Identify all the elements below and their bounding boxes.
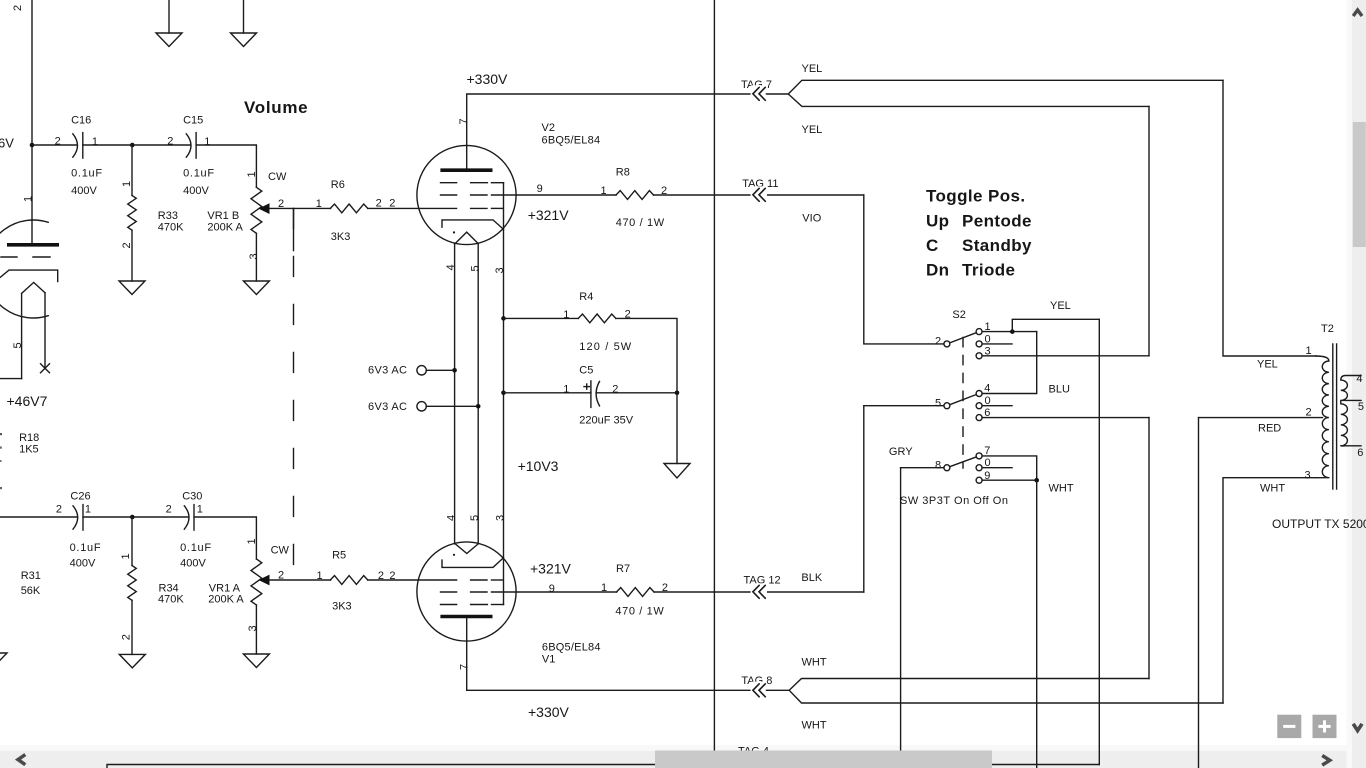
resistor R18 value labels [19, 432, 39, 456]
ground (R33) [119, 281, 145, 295]
dashed mechanical link S2 [962, 338, 964, 469]
svg-text:1: 1 [601, 582, 607, 594]
transformer T2 primary winding [1316, 356, 1329, 478]
svg-text:1: 1 [120, 553, 132, 559]
wire pole 5 feed [864, 405, 944, 407]
svg-text:9: 9 [549, 583, 555, 595]
switch S2 designator [952, 309, 965, 321]
wire bottom-left feed to C26 [0, 516, 77, 518]
wire V2 pin 9 to R8 [492, 194, 617, 196]
svg-text:Standby: Standby [962, 236, 1032, 255]
svg-text:YEL: YEL [802, 124, 823, 136]
junction dot C16/C15/R33 [130, 143, 135, 148]
svg-text:R18: R18 [19, 432, 39, 444]
switch S2 pole 8 [935, 459, 950, 471]
resistor R34 [120, 517, 184, 654]
wire V1 plate to +330V rail (bottom) [467, 618, 753, 690]
wire V2 pin 5 / V1 pin 5 heater rail [477, 244, 479, 544]
svg-text:CW: CW [271, 544, 290, 556]
svg-text:V1: V1 [542, 654, 555, 666]
wire label WHT (upper) [802, 657, 827, 669]
switch S2 contact 4 [976, 383, 990, 397]
switch S2 contact 9 [976, 470, 990, 483]
svg-text:2: 2 [1306, 407, 1312, 419]
wire R6 to V2 grid [368, 207, 457, 209]
resistor R31 labels (off-screen component) [21, 570, 41, 597]
vertical riser TAG12 to pole 5 [863, 406, 865, 592]
svg-text:6: 6 [1357, 447, 1363, 459]
tag TAG 11 label [742, 178, 778, 190]
svg-text:4: 4 [1356, 373, 1362, 385]
junction dot pin5 rail [476, 404, 481, 409]
net label +330V (bottom) [528, 704, 570, 720]
pin label 1 (T2) [1306, 345, 1312, 357]
wire contact 7 to WHT junction [982, 456, 1037, 480]
pentode V2 envelope [417, 145, 516, 244]
wire R8 to TAG 11 [654, 194, 864, 196]
capacitor C16 [55, 115, 103, 197]
wire VR1A wiper out [270, 579, 331, 581]
capacitor C26 [56, 491, 101, 570]
svg-text:1: 1 [601, 185, 607, 197]
fork split TAG 8 (WHT pair) [789, 679, 1223, 704]
wire junction to C15 [132, 144, 190, 146]
switch S2 lever pole 2 to contact 1 [950, 333, 977, 343]
svg-text:6BQ5/EL84: 6BQ5/EL84 [542, 642, 601, 654]
svg-text:C30: C30 [182, 491, 202, 503]
capacitor C5 [504, 365, 678, 427]
svg-text:2: 2 [167, 136, 173, 148]
tag TAG 7 label [741, 79, 772, 91]
switch S2 type label [900, 495, 1008, 507]
ground (top, left) [156, 0, 182, 47]
svg-text:R7: R7 [616, 563, 630, 575]
pentode V2 grid g2 dashes [441, 194, 488, 196]
pin label 5 (rotated) [12, 342, 24, 348]
wire heater pin 5 horizontal exit [0, 378, 22, 380]
svg-text:7: 7 [459, 664, 471, 670]
svg-text:Volume: Volume [244, 98, 308, 117]
wire label WHT (at S2) [1049, 482, 1074, 494]
wire label VIO [802, 213, 821, 225]
svg-text:GRY: GRY [889, 446, 913, 458]
pentode V1 grid g3 dashes [441, 604, 504, 606]
terminal 6V3 AC (pin 4) [368, 365, 426, 377]
tube designator V1 [542, 642, 601, 666]
svg-text:1: 1 [92, 136, 98, 148]
scrollbar arrow left [18, 755, 25, 765]
resistor R4 [504, 291, 678, 393]
svg-text:C16: C16 [71, 115, 91, 127]
svg-text:6V3 AC: 6V3 AC [368, 401, 407, 413]
switch S2 contact 0c (off) [976, 457, 991, 471]
svg-text:Dn: Dn [926, 261, 949, 280]
svg-text:T2: T2 [1321, 323, 1334, 335]
tag TAG 4 label (partially hidden) [738, 746, 769, 758]
svg-text:2: 2 [612, 383, 618, 395]
scrollbar arrow down [1353, 724, 1362, 731]
svg-text:3K3: 3K3 [331, 231, 351, 243]
pentode V1 envelope [417, 542, 516, 641]
svg-text:4: 4 [445, 515, 457, 521]
pentode V2 plate bar [440, 168, 492, 172]
switch S2 contact 0b (off) [976, 395, 991, 409]
horizontal scrollbar track [0, 751, 1366, 768]
switch S2 contact 3 [976, 345, 991, 359]
svg-text:CW: CW [268, 171, 287, 183]
vertical YEL wire TAG7 fork to T2 pin 1 [1223, 80, 1316, 356]
pin label 5 (rotated, V2) [470, 265, 482, 271]
ground (top, right) [231, 0, 257, 47]
transformer T2 part label [1272, 517, 1366, 531]
wire label WHT (T2) [1260, 483, 1285, 495]
pin label 4 (rotated, V1) [445, 515, 457, 521]
svg-text:+46V7: +46V7 [7, 393, 48, 409]
ground (VR1A) [243, 654, 269, 668]
triode V3 heater [22, 282, 45, 293]
svg-text:2: 2 [121, 634, 133, 640]
svg-text:R6: R6 [331, 179, 345, 191]
svg-text:5: 5 [12, 342, 24, 348]
wire C5 to ground [676, 393, 678, 464]
switch S2 pole 5 [935, 397, 950, 409]
wire contact 3 to YEL riser [982, 355, 1149, 357]
resistor R6 [316, 179, 396, 243]
svg-text:R31: R31 [21, 570, 41, 582]
svg-text:YEL: YEL [802, 63, 823, 75]
svg-text:5: 5 [935, 397, 941, 409]
svg-text:2: 2 [12, 5, 24, 11]
svg-text:WHT: WHT [1049, 482, 1074, 494]
svg-text:6V3 AC: 6V3 AC [368, 365, 407, 377]
svg-text:YEL: YEL [1257, 359, 1278, 371]
svg-text:2: 2 [56, 503, 62, 515]
wire T2 pin 2 (RED) [1199, 417, 1323, 419]
transformer T2 secondary winding [1341, 376, 1361, 447]
wire VR1B wiper out [270, 207, 331, 209]
pin label 6 (T2 secondary) [1357, 447, 1363, 459]
pentode V1 grid g1 dashes [471, 579, 503, 581]
wire heater second leg [44, 293, 46, 368]
zoom in button [1313, 715, 1337, 738]
switch S2 pole 2 [935, 336, 950, 348]
wire label WHT (lower) [802, 719, 827, 731]
pin label 7 (rotated, V1 plate) [459, 664, 471, 670]
net label +10V3 [518, 458, 559, 474]
wire contact 9 to WHT junction [982, 479, 1037, 481]
svg-text:120 / 5W: 120 / 5W [579, 341, 632, 353]
svg-text:1: 1 [246, 538, 258, 544]
vertical scrollbar thumb [1353, 122, 1366, 247]
vertical GRY wire to bottom [900, 468, 902, 768]
svg-text:4: 4 [445, 264, 457, 270]
svg-text:+330V: +330V [528, 704, 570, 720]
node A junction dot (C16 input node) [30, 143, 35, 148]
svg-text:400V: 400V [71, 185, 97, 197]
wire V1 pin 9 to R7 [492, 591, 617, 593]
resistor R7 [601, 563, 668, 618]
svg-text:200K A: 200K A [207, 222, 243, 234]
junction dot cathode/C5 [501, 391, 506, 396]
pentode V1 grid g2 dashes [441, 591, 488, 593]
svg-text:3: 3 [1305, 470, 1311, 482]
terminal 6V3 AC (pin 5) [368, 401, 426, 413]
svg-text:1: 1 [85, 503, 91, 515]
svg-text:R5: R5 [332, 549, 346, 561]
scrollbar arrow right [1322, 756, 1330, 766]
svg-text:0.1uF: 0.1uF [183, 167, 214, 179]
wire plate lead of left triode [31, 145, 33, 243]
potentiometer VR1 A [208, 538, 289, 654]
svg-text:470 / 1W: 470 / 1W [616, 217, 665, 229]
horizontal scrollbar gap band [0, 745, 1366, 751]
svg-text:1: 1 [316, 198, 322, 210]
svg-text:1: 1 [197, 503, 203, 515]
wire TAG 8 to fork [767, 689, 790, 691]
svg-text:8: 8 [935, 459, 941, 471]
svg-text:VR1 B: VR1 B [207, 210, 239, 222]
svg-text:0.1uF: 0.1uF [180, 542, 211, 554]
vertical scrollbar track [1352, 0, 1366, 768]
switch S2 lever pole 5 to contact 4 [950, 395, 977, 405]
leftover cut glyph specks at viewport edge [0, 433, 2, 489]
svg-text:400V: 400V [180, 558, 206, 570]
svg-text:7: 7 [984, 445, 990, 457]
no-connect X marker [41, 364, 50, 373]
tag TAG 8 label [741, 675, 772, 687]
pin label 1 (rotated, left triode plate) [23, 196, 35, 202]
zoom out button [1277, 715, 1301, 738]
svg-text:3K3: 3K3 [332, 600, 352, 612]
transformer T2 core [1333, 344, 1337, 489]
svg-text:BLU: BLU [1049, 384, 1070, 396]
wire label YEL (T2) [1257, 359, 1278, 371]
resistor R5 [317, 549, 396, 612]
wire junction to C30 [132, 516, 188, 518]
resistor R8 [601, 167, 668, 230]
svg-text:+10V3: +10V3 [518, 458, 559, 474]
pin label 3 (rotated, V1) [494, 515, 506, 521]
svg-text:3: 3 [247, 625, 259, 631]
wire label BLU [1049, 384, 1070, 396]
junction dot pin4 rail [452, 368, 457, 373]
artifact dot V2 [453, 231, 455, 233]
svg-text:3: 3 [248, 253, 260, 259]
wire R7 to TAG 12 [654, 591, 864, 593]
net label +46V7 [7, 393, 48, 409]
svg-text:470K: 470K [158, 594, 184, 606]
svg-text:1: 1 [563, 384, 569, 396]
svg-text:470 / 1W: 470 / 1W [615, 606, 664, 618]
svg-text:1: 1 [121, 181, 133, 187]
svg-text:400V: 400V [183, 185, 209, 197]
wire top-left feed to node [31, 0, 33, 145]
svg-text:6V: 6V [0, 136, 14, 151]
net label +321V (top) [528, 207, 570, 223]
svg-text:5: 5 [470, 265, 482, 271]
svg-text:1: 1 [23, 196, 35, 202]
pin label 9 (V1 screen) [549, 583, 555, 595]
wire C26 to junction [83, 516, 132, 518]
pentode V1 plate bar [440, 615, 492, 619]
svg-text:Toggle Pos.: Toggle Pos. [926, 187, 1025, 206]
pentode V2 cathode [442, 220, 504, 229]
switch S2 contact 0a (off) [976, 333, 991, 347]
svg-text:SW 3P3T On Off On: SW 3P3T On Off On [900, 495, 1008, 507]
svg-text:220uF 35V: 220uF 35V [579, 415, 633, 427]
wire YEL loop from contact 1 [1012, 319, 1099, 331]
wire label YEL (at S2) [1050, 300, 1071, 312]
svg-text:YEL: YEL [1050, 300, 1071, 312]
pin label 3 (rotated, V2) [494, 267, 506, 273]
wire V2 pin 3 cathode rail [503, 183, 505, 605]
dashed gang link VR1B-VR1A [293, 208, 295, 580]
switch S2 contact 1 [976, 321, 991, 335]
wire TAG 7 to fork [767, 93, 789, 95]
pin label 7 (rotated, V2 plate) [458, 118, 470, 124]
wire label BLK [801, 572, 822, 584]
wire T2 pin 3 (WHT) to TAG8 lower fork [1223, 478, 1316, 703]
svg-text:7: 7 [458, 118, 470, 124]
pin label 5 (T2 secondary) [1358, 401, 1364, 413]
svg-text:R8: R8 [616, 167, 630, 179]
switch S2 contact 7 [976, 445, 990, 459]
svg-text:+321V: +321V [530, 560, 572, 576]
pin label 2 (T2) [1306, 407, 1312, 419]
vertical riser contact 6 to TAG8 upper fork [1148, 418, 1150, 679]
svg-text:C: C [926, 236, 939, 255]
svg-text:0.1uF: 0.1uF [70, 542, 101, 554]
title Volume [244, 98, 308, 117]
svg-text:2: 2 [166, 503, 172, 515]
svg-text:2: 2 [935, 336, 941, 348]
wire contact 6 to right [982, 417, 1149, 419]
ground (VR1B) [243, 281, 269, 295]
long vertical bus wire x=714 [713, 0, 715, 764]
svg-text:1: 1 [204, 136, 210, 148]
pin label 4 (rotated, V2) [445, 264, 457, 270]
svg-text:Triode: Triode [962, 261, 1015, 280]
svg-text:+321V: +321V [528, 207, 570, 223]
transformer T2 designator [1321, 323, 1334, 335]
ground (R34) [119, 654, 145, 668]
wire contact 1 to strap corner [982, 331, 1037, 333]
wire C16 to junction [83, 144, 133, 146]
svg-text:200K A: 200K A [208, 594, 244, 606]
wire C30 to VR1A [194, 517, 256, 559]
svg-text:C5: C5 [579, 365, 593, 377]
artifact dot V1 [453, 554, 455, 556]
stub wire off contact 0c [982, 467, 1012, 469]
svg-text:R33: R33 [158, 210, 178, 222]
svg-text:WHT: WHT [1260, 483, 1285, 495]
tube designator V2 [542, 122, 601, 147]
svg-text:1: 1 [563, 309, 569, 321]
svg-text:5: 5 [1358, 401, 1364, 413]
vertical RED wire to bottom [1198, 418, 1200, 768]
toggle position legend [926, 187, 1032, 280]
stub wire off contact 0b [982, 405, 1012, 407]
triode V3 plate bar [7, 243, 59, 247]
pentode V2 heater [455, 232, 478, 243]
svg-text:1: 1 [246, 171, 258, 177]
tag TAG 12 chevron [751, 583, 767, 600]
triode V3 (partial, clipped at left viewport edge) envelope [0, 220, 48, 318]
wire label YEL (lower) [802, 124, 823, 136]
wire C15 to VR1B [196, 145, 256, 187]
wire R5 to V1 grid [368, 579, 457, 581]
resistor R33 [121, 145, 184, 281]
fork split TAG 7 (YEL pair) [788, 80, 1223, 106]
tag TAG 12 label [744, 574, 781, 586]
svg-text:5: 5 [469, 515, 481, 521]
svg-text:Pentode: Pentode [962, 212, 1032, 231]
switch S2 lever pole 8 to contact 7 [950, 457, 977, 467]
svg-text:VR1 A: VR1 A [209, 583, 241, 595]
tag TAG 8 chevron [751, 682, 767, 699]
wire terminal to pin4 rail [426, 369, 454, 371]
scrollbar arrow up [1353, 10, 1362, 16]
svg-text:56K: 56K [21, 585, 41, 597]
ground (C5) [664, 464, 690, 479]
wire V2 plate to +330V rail [467, 94, 752, 169]
svg-text:C26: C26 [70, 491, 90, 503]
pin label 4 (T2 secondary) [1356, 373, 1362, 385]
svg-text:2: 2 [121, 242, 133, 248]
capacitor C30 [166, 491, 212, 570]
svg-text:4: 4 [984, 383, 990, 395]
schematic sheet frame border [107, 765, 1099, 768]
junction dot YEL takeoff [1010, 329, 1015, 334]
svg-text:+330V: +330V [467, 71, 509, 87]
svg-text:S2: S2 [952, 309, 965, 321]
wire heater pin 5 drop [21, 293, 23, 378]
pin label 3 (T2) [1305, 470, 1311, 482]
wire pole 8 feed [901, 467, 944, 469]
svg-text:3: 3 [494, 267, 506, 273]
svg-text:1K5: 1K5 [19, 444, 39, 456]
svg-text:RED: RED [1258, 423, 1281, 435]
svg-text:OUTPUT TX 5200: OUTPUT TX 5200 [1272, 517, 1366, 531]
stub wire off contact 0a [982, 343, 1012, 345]
long vertical YEL wire x=1099 [1098, 319, 1100, 764]
ground (R31, clipped) [0, 653, 7, 667]
pin label 5 (rotated, V1) [469, 515, 481, 521]
horizontal scrollbar thumb [655, 751, 992, 768]
net label 6V (clipped at viewport) [0, 136, 14, 151]
svg-text:1: 1 [317, 570, 323, 582]
wire label RED [1258, 423, 1281, 435]
capacitor C15 [167, 115, 214, 197]
pentode V2 grid g3 dashes [441, 182, 504, 184]
svg-text:2: 2 [55, 136, 61, 148]
strap wire contact 1 to contact 4 [982, 332, 1037, 394]
svg-text:3: 3 [494, 515, 506, 521]
svg-text:400V: 400V [70, 558, 96, 570]
pin label 2 (rotated, top-left wire) [12, 5, 24, 11]
vertical riser contact 3 to TAG7 lower fork [1148, 106, 1150, 355]
wire terminal to pin5 rail [426, 405, 478, 407]
svg-text:C15: C15 [183, 115, 203, 127]
tag TAG 7 chevron [751, 85, 767, 102]
net label +330V (top) [467, 71, 509, 87]
wire node to C16 [32, 144, 77, 146]
svg-text:VIO: VIO [802, 213, 821, 225]
pentode V2 grid g1 dashes [471, 207, 503, 209]
wire TAG 11 riser to S2 pole 2 [864, 195, 944, 344]
vertical scrollbar gap band [1347, 0, 1353, 768]
junction dot cathode/R4 [501, 316, 506, 321]
